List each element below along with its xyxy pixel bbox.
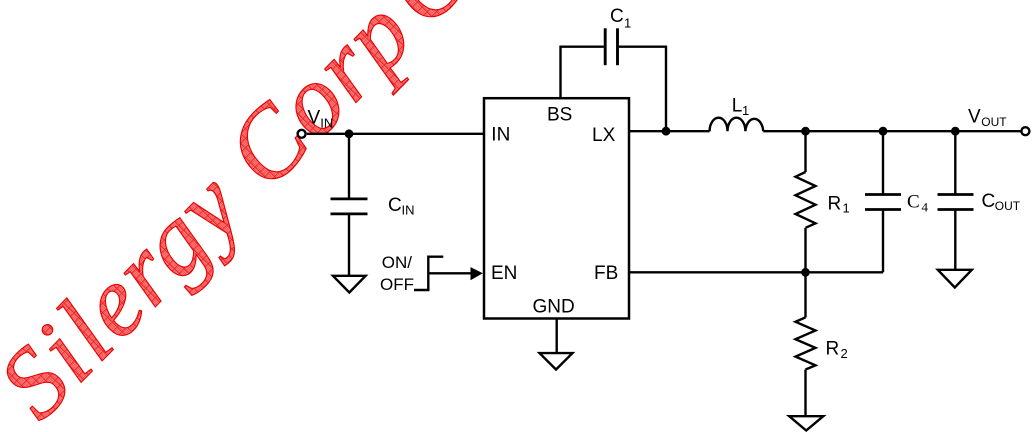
svg-text:2: 2 (841, 346, 848, 361)
svg-text:1: 1 (624, 16, 631, 31)
svg-text:EN: EN (491, 263, 517, 284)
ground symbol below R2 (789, 416, 823, 430)
svg-text:ON/: ON/ (382, 253, 413, 272)
svg-text:OFF: OFF (380, 275, 414, 294)
svg-text:GND: GND (533, 297, 575, 318)
svg-text:C: C (982, 191, 996, 212)
svg-text:R: R (828, 194, 842, 215)
svg-text:LX: LX (592, 125, 616, 146)
capacitor C4 (882, 131, 884, 194)
svg-text:R: R (826, 339, 840, 360)
wire CIN top lead (348, 134, 350, 199)
resistor R1 (804, 131, 806, 172)
ground symbol below CIN (333, 276, 366, 293)
arrowhead at EN pin (471, 267, 483, 280)
junction dot R1 node (801, 127, 810, 136)
inductor L1 (710, 118, 764, 132)
wire CIN bottom lead (348, 214, 350, 277)
node junction dot VIN/CIN (345, 129, 354, 138)
svg-text:V: V (968, 106, 981, 127)
svg-text:1: 1 (843, 201, 850, 216)
wire LX pin to inductor (628, 130, 709, 132)
svg-text:IN: IN (491, 125, 510, 146)
svg-text:OUT: OUT (995, 199, 1021, 213)
IC U1 body (484, 98, 629, 318)
svg-text:L: L (732, 96, 743, 117)
junction dot LX node (662, 127, 671, 136)
resistor R2 (804, 272, 806, 317)
wire inductor to VOUT terminal (763, 130, 1021, 132)
junction dot COUT node (951, 127, 960, 136)
capacitor COUT (954, 131, 956, 194)
svg-text:BS: BS (547, 105, 572, 126)
capacitor C1 plates (604, 28, 607, 65)
svg-text:C: C (388, 195, 402, 216)
svg-text:1: 1 (742, 103, 749, 118)
svg-text:V: V (308, 108, 321, 129)
wire C1 to LX node (619, 47, 666, 132)
svg-text:IN: IN (402, 203, 415, 218)
svg-text:OUT: OUT (981, 115, 1007, 129)
junction dot FB/R2 node (801, 268, 810, 277)
step waveform symbol (414, 257, 443, 290)
junction dot C4 node (879, 127, 888, 136)
terminal VOUT circle (1021, 127, 1029, 135)
svg-text:4: 4 (922, 199, 929, 214)
svg-text:FB: FB (594, 263, 618, 284)
wire BS pin up (561, 47, 604, 98)
svg-text:IN: IN (320, 116, 333, 131)
wire FB line (628, 271, 883, 273)
arrow wire into EN (428, 272, 472, 274)
terminal VIN circle (298, 130, 306, 138)
svg-text:C: C (610, 6, 624, 27)
wire VIN to IN pin (307, 133, 484, 135)
ground symbol below COUT (938, 270, 972, 288)
ground symbol below GND pin (540, 353, 573, 369)
wire GND pin down (556, 319, 558, 354)
capacitor CIN plates (331, 197, 368, 200)
watermark "Silergy Corp Confidential" (0, 0, 814, 432)
svg-text:C: C (907, 191, 920, 212)
